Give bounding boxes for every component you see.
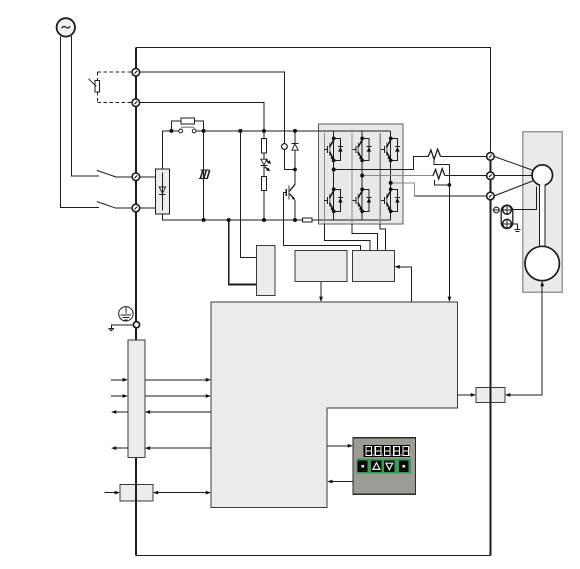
wire: psu to control xyxy=(320,282,322,297)
wire: left supply bus xyxy=(135,48,137,556)
external brake resistor dashed link xyxy=(97,72,132,103)
terminal XR1 xyxy=(487,153,495,161)
precharge bypass contact K1 xyxy=(179,127,196,132)
node: phase W junction xyxy=(389,181,393,185)
wire: inverter DC+ rail xyxy=(319,130,391,132)
wire: DC+ tap from X2 xyxy=(140,103,265,131)
IGBT Q5 xyxy=(352,187,371,213)
precharge resistor R1 xyxy=(171,118,203,131)
brake IGBT Q7 xyxy=(286,170,295,221)
IGBT Q3 xyxy=(381,137,400,163)
ground xyxy=(109,325,134,331)
brake resistor chain R2 xyxy=(261,131,272,220)
DC link sense module U2 xyxy=(257,245,275,295)
wire: X3 to rectifier xyxy=(140,176,156,178)
wire: gate link W xyxy=(380,224,385,251)
motor enclosure xyxy=(523,132,563,293)
wire: aux to control xyxy=(153,491,211,495)
wire: motor lead U xyxy=(494,156,534,170)
wire: motor lead W xyxy=(494,181,534,197)
wire: bottom return line xyxy=(136,554,491,556)
motor stator M1 xyxy=(532,165,552,185)
PE terminal symbol xyxy=(119,307,133,321)
motor shaft xyxy=(540,185,545,247)
gate driver block U6 xyxy=(352,251,394,282)
IGBT Q4 xyxy=(324,187,343,213)
wire: control to gate driver xyxy=(400,267,412,302)
wire: bus through aux block xyxy=(135,484,137,501)
wire: control to speed block xyxy=(458,393,476,397)
wire: brake gate drive xyxy=(283,193,360,251)
IGBT Q6 xyxy=(381,187,400,213)
terminal XR2 xyxy=(487,172,495,180)
aux interface block U7 xyxy=(120,484,153,501)
wire: encoder feedback xyxy=(509,285,542,395)
wire: DC+ rail xyxy=(162,131,318,169)
wire: source right leg xyxy=(71,36,98,176)
wire: brake chopper line from X1 xyxy=(140,72,296,169)
inverter module box U3 xyxy=(319,124,403,224)
wire: phase U inside module xyxy=(334,169,403,171)
wire: right output bus xyxy=(489,153,491,556)
wire: DC+ voltage sense xyxy=(240,131,256,258)
wire: control to display xyxy=(327,444,353,448)
wire: display to control xyxy=(327,480,353,484)
wire: thermistor to motor xyxy=(511,186,536,209)
wire: source left leg xyxy=(60,37,98,208)
keypad display unit P1 xyxy=(353,438,415,495)
wire: phase W output xyxy=(403,183,414,196)
wire: bus through speed block xyxy=(489,388,491,403)
ac source G1 xyxy=(57,18,75,36)
shunt resistor R3 xyxy=(302,218,311,222)
I/O terminal strip X5 xyxy=(128,340,145,457)
wire: output row 4 xyxy=(111,446,211,450)
terminal X2 xyxy=(132,99,140,107)
wire: L1 sense tap xyxy=(434,160,449,165)
IGBT Q2 xyxy=(352,137,371,163)
wire: phase V output xyxy=(403,175,433,177)
flyback diode V2 xyxy=(292,131,299,170)
terminal X1 xyxy=(132,68,140,76)
speed interface block U8 xyxy=(476,388,505,403)
switch S2 xyxy=(97,202,132,209)
motor fan rotor xyxy=(525,246,559,280)
terminal X4 xyxy=(132,204,140,212)
rectifier V1 xyxy=(155,169,169,214)
gate bus column W xyxy=(379,133,381,224)
gate bus column U xyxy=(323,133,325,224)
capacitor bank C1 branch xyxy=(199,131,210,220)
terminal X3 xyxy=(132,173,140,181)
wire: L2 sense tap xyxy=(435,180,450,185)
wire: phase column U xyxy=(333,131,335,220)
PTC polarity symbol xyxy=(493,207,501,213)
wire: gate link V xyxy=(352,224,378,251)
thermistor terminal block xyxy=(501,205,513,229)
wire: phase W to terminal xyxy=(414,195,486,197)
wire: inverter DC- rail xyxy=(319,219,391,221)
wire: input row 1 xyxy=(111,378,211,382)
wire: DC- voltage sense xyxy=(229,220,257,284)
wire: input row 2 xyxy=(111,394,211,398)
node: brake chopper junction xyxy=(293,168,297,172)
node: earth connection circle xyxy=(133,322,139,328)
terminal XR3 xyxy=(487,192,495,200)
power supply block U5 xyxy=(295,251,347,282)
wire: phase V inside module xyxy=(362,175,403,177)
wire: gate link U xyxy=(324,224,370,251)
wire: phase column W xyxy=(390,131,392,220)
IGBT Q1 xyxy=(324,137,343,163)
switch S1 xyxy=(97,170,132,177)
wire: output row 3 xyxy=(111,410,211,414)
choke L1 xyxy=(427,149,441,159)
wire: aux input xyxy=(104,491,120,495)
indicator lamp on brake line xyxy=(282,144,288,150)
wire: L2 to terminal xyxy=(445,175,487,177)
resistor R-ext xyxy=(89,79,100,92)
wire: motor lead V xyxy=(494,175,532,177)
wire: current sense to control xyxy=(448,164,450,296)
control block U4 xyxy=(211,302,458,508)
node: sense junction xyxy=(448,183,452,187)
wire: phase W inside module xyxy=(391,182,403,184)
node: DC- rail junctions xyxy=(202,218,297,222)
wire: X4 to rectifier xyxy=(140,207,156,209)
node: phase V junction xyxy=(360,174,364,178)
choke L2 xyxy=(433,169,445,179)
wire: thermistor shield ground xyxy=(511,224,520,232)
node: phase U junction xyxy=(332,168,336,172)
wire: phase column V xyxy=(361,131,363,220)
wire: phase U output xyxy=(403,156,487,169)
wire: DC- rail xyxy=(162,214,318,220)
gate bus column V xyxy=(351,133,353,224)
wire: top link line to output bus xyxy=(136,48,491,153)
node: DC+ rail junctions xyxy=(169,129,297,133)
